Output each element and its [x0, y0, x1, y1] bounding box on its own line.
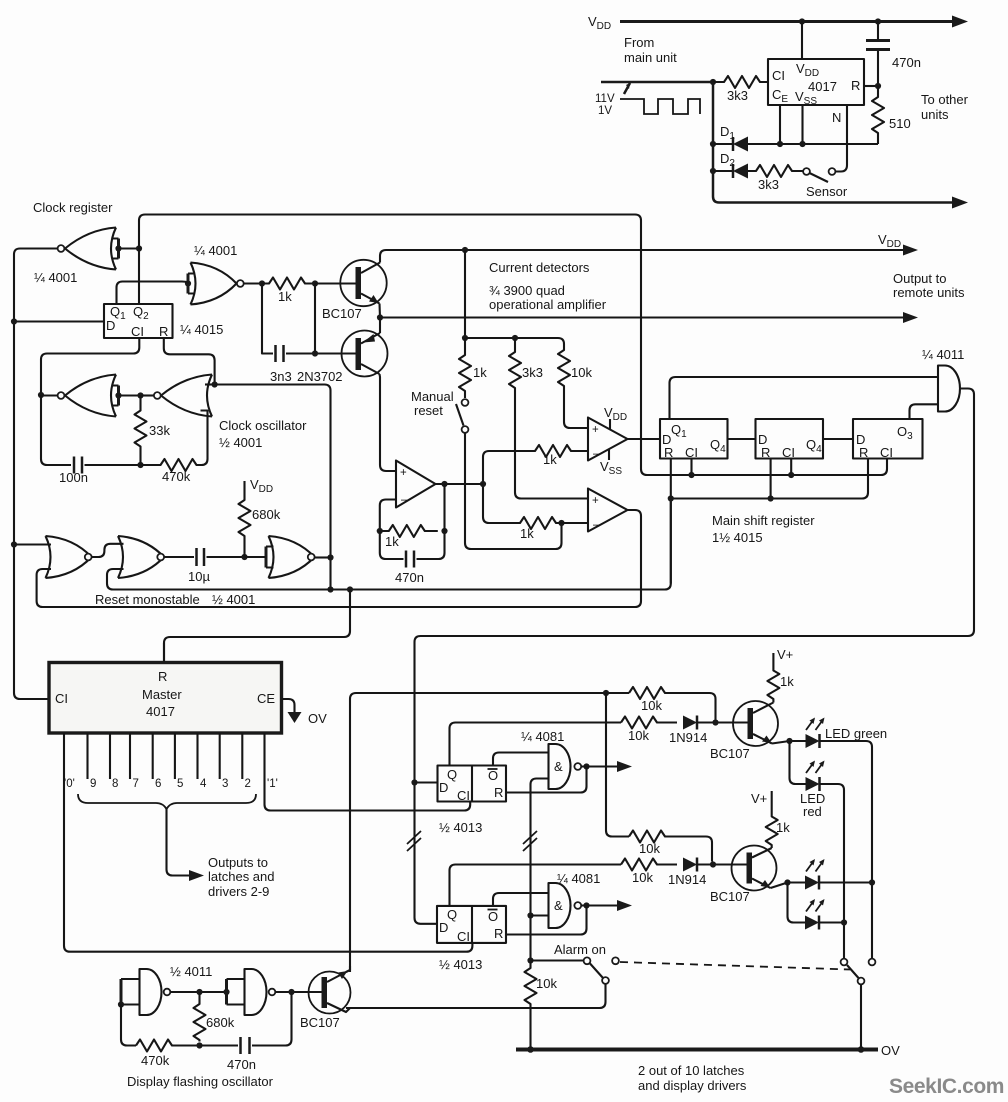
svg-text:SeekIC.com: SeekIC.com: [889, 1075, 1004, 1098]
wire VDD drop to resistor bus: [462, 247, 468, 253]
node input tie osc A: [121, 979, 140, 1005]
svg-text:1k: 1k: [776, 820, 790, 835]
switch manual reset: [462, 399, 469, 406]
svg-text:&: &: [554, 898, 563, 913]
svg-text:Output to: Output to: [893, 271, 946, 286]
svg-text:R: R: [494, 926, 503, 941]
wire output pins 9-2: [88, 733, 243, 779]
resistor 1k (U1b input): [567, 522, 588, 524]
node break marks: [407, 831, 421, 851]
wire C output to reset vertical: [315, 556, 331, 558]
wire gate output to far-left vertical down to Master CI: [14, 249, 58, 700]
svg-text:LED green: LED green: [825, 726, 887, 741]
svg-text:main unit: main unit: [624, 50, 677, 65]
svg-text:3k3: 3k3: [522, 365, 543, 380]
svg-text:10k: 10k: [641, 698, 662, 713]
svg-text:R: R: [859, 445, 868, 460]
wire VDD rail: [620, 20, 956, 23]
svg-text:¾ 3900 quad: ¾ 3900 quad: [489, 283, 565, 298]
svg-text:Outputs to: Outputs to: [208, 855, 268, 870]
svg-text:CI: CI: [880, 445, 893, 460]
wire R pin up: [163, 643, 165, 663]
svg-text:Current detectors: Current detectors: [489, 260, 590, 275]
svg-text:'1': '1': [267, 778, 278, 790]
wire top clock rail to CI bus of shift register: [139, 215, 887, 476]
wire AND lower input from common line: [531, 779, 549, 963]
IC 4017 (remote unit): [768, 59, 864, 105]
svg-text:¼ 4011: ¼ 4011: [922, 347, 964, 362]
wire upper input from left vertical: [11, 541, 17, 547]
wire BC107 emitter to output rail: [378, 304, 381, 318]
svg-text:Q: Q: [447, 907, 457, 922]
resistor 470k (osc): [141, 411, 208, 472]
wire Q2 latch to base line: [450, 865, 622, 906]
svg-text:510: 510: [889, 116, 911, 131]
svg-text:2 out of 10 latches: 2 out of 10 latches: [638, 1063, 745, 1078]
capacitor 10u: [164, 556, 194, 558]
capacitor 470n (flash): [200, 1044, 239, 1046]
resistor 3k3 (detector): [509, 338, 588, 499]
wire O-bar to AND input (lower): [493, 893, 549, 906]
wire 4011 output down to latch D line: [415, 389, 975, 924]
wire AND lower input from common line: [531, 914, 549, 916]
wire Q1 to inverter input: [117, 282, 189, 305]
gate 4011 osc A: [140, 969, 162, 1015]
switch alarm on: [531, 959, 584, 961]
svg-text:CI: CI: [685, 445, 698, 460]
resistor 1k to V+ (lower): [766, 791, 778, 848]
svg-text:red: red: [803, 804, 822, 819]
switch LED select: [841, 959, 848, 966]
wire alarm lever down to flash line: [346, 984, 606, 1008]
resistor 10k (upper pullup): [629, 687, 716, 720]
resistor 1k (manual reset): [459, 338, 471, 398]
svg-text:R: R: [159, 324, 168, 339]
svg-text:V+: V+: [777, 647, 793, 662]
gate 1/4 4001 clock register (NOR pointing left): [65, 228, 116, 270]
wire input to Q2/top rail: [119, 247, 140, 249]
resistor 1k (U1c feedback): [380, 500, 396, 532]
IC 4013 lower: [437, 906, 506, 943]
svg-text:Sensor: Sensor: [806, 184, 848, 199]
svg-text:Clock oscillator: Clock oscillator: [219, 418, 307, 433]
gate reset mono C (NOR right): [269, 536, 315, 578]
svg-text:2N3702: 2N3702: [297, 369, 343, 384]
svg-text:1k: 1k: [543, 452, 557, 467]
transistor Q3 BC107 (upper driver): [733, 701, 778, 746]
svg-text:3k3: 3k3: [727, 88, 748, 103]
op-amp U1b (lower detector): [588, 489, 628, 532]
node junction VDD-470n: [875, 18, 881, 24]
LED red (lower): [788, 883, 806, 923]
svg-text:Alarm on: Alarm on: [554, 942, 606, 957]
wire output pin 1 to upper latch CI: [265, 733, 471, 811]
svg-text:½ 4013: ½ 4013: [439, 820, 482, 835]
svg-text:10k: 10k: [639, 841, 660, 856]
svg-text:Q: Q: [447, 767, 457, 782]
svg-text:remote units: remote units: [893, 285, 965, 300]
svg-text:R: R: [761, 445, 770, 460]
svg-text:1V: 1V: [598, 105, 612, 117]
svg-text:1k: 1k: [520, 526, 534, 541]
svg-text:CI: CI: [457, 788, 470, 803]
svg-text:½ 4013: ½ 4013: [439, 957, 482, 972]
resistor 510: [872, 86, 884, 144]
wire dashed link to LED switch: [620, 962, 850, 970]
svg-text:¼ 4081: ¼ 4081: [557, 871, 600, 886]
svg-text:D: D: [106, 318, 115, 333]
transistor Q1 BC107 (NPN): [340, 260, 386, 306]
svg-text:R: R: [851, 78, 860, 93]
gate clock osc A (NOR pointing left): [65, 375, 116, 417]
svg-text:CE: CE: [257, 691, 275, 706]
svg-text:10k: 10k: [571, 365, 592, 380]
wire left vertical + bottom rail to other units: [713, 82, 956, 203]
wire R to AND output (lower latch feedback): [506, 906, 587, 935]
svg-text:–: –: [593, 519, 600, 531]
op-amp U1a (main detector): [588, 418, 628, 461]
wire osc A output to 100n node: [41, 394, 58, 396]
wire U1c output node: [436, 483, 484, 485]
svg-text:O: O: [488, 768, 498, 783]
svg-text:CI: CI: [772, 68, 785, 83]
svg-text:reset: reset: [414, 403, 443, 418]
svg-text:R: R: [158, 669, 167, 684]
gate 1/4 4001 inverter (NOR pointing right): [191, 263, 237, 305]
wire Q1 latch to base line: [450, 723, 622, 766]
wire input line from main unit: [601, 81, 713, 84]
svg-text:O: O: [488, 909, 498, 924]
svg-text:2: 2: [245, 778, 251, 790]
svg-text:3: 3: [222, 778, 228, 790]
svg-text:3k3: 3k3: [758, 177, 779, 192]
IC 1/4 4015 box: [104, 304, 173, 338]
svg-text:4: 4: [200, 778, 207, 790]
svg-text:1k: 1k: [780, 674, 794, 689]
wire Q1 to 4011 input: [670, 377, 939, 419]
svg-text:CI: CI: [55, 691, 68, 706]
resistor 680k (flash): [194, 992, 206, 1042]
gate 4011 osc B: [245, 969, 267, 1015]
svg-text:operational amplifier: operational amplifier: [489, 297, 607, 312]
wire VDD pin: [801, 22, 803, 60]
resistor 1k (U1a feedback): [483, 445, 588, 484]
capacitor 470n (top right): [877, 22, 879, 40]
svg-text:+: +: [592, 495, 599, 507]
svg-text:From: From: [624, 35, 654, 50]
svg-text:D: D: [439, 780, 448, 795]
wire emitter to LED node: [772, 741, 800, 744]
svg-text:&: &: [554, 759, 563, 774]
IC 4015 stage 2: [756, 419, 824, 459]
wire CI risers: [692, 459, 792, 476]
wire O-bar to AND input: [493, 753, 549, 766]
wire lower input from feedback line: [37, 510, 641, 607]
svg-text:Master: Master: [142, 687, 182, 702]
resistor 1k (BC107 base): [262, 278, 315, 290]
resistor 10k (alarm): [525, 962, 537, 1048]
svg-text:10k: 10k: [632, 870, 653, 885]
svg-text:7: 7: [133, 778, 139, 790]
svg-text:5: 5: [177, 778, 183, 790]
capacitor 3n3: [262, 284, 273, 354]
IC 4015 stage 3: [853, 419, 923, 459]
node waveform symbol: [620, 99, 700, 114]
svg-text:–: –: [593, 448, 600, 460]
gate clock osc B (NOR pointing left): [161, 375, 212, 417]
resistor 3k3 (CI input): [710, 79, 716, 85]
svg-text:¼ 4001: ¼ 4001: [34, 270, 77, 285]
svg-text:CI: CI: [782, 445, 795, 460]
wire reset line to Master R: [164, 590, 350, 663]
diode 1N914 (lower): [683, 858, 697, 872]
resistor 10k (detector): [558, 344, 588, 428]
capacitor 100n: [74, 457, 82, 474]
svg-text:'0': '0': [64, 778, 75, 790]
wire VSS pin down: [801, 105, 803, 144]
svg-text:4017: 4017: [808, 79, 837, 94]
wire 2N3702 collector down to op-amp +: [380, 374, 397, 471]
svg-text:6: 6: [155, 778, 161, 790]
svg-text:OV: OV: [881, 1043, 900, 1058]
wire D pin to left vertical: [14, 320, 104, 322]
resistor 470k (flash): [136, 1040, 200, 1052]
svg-text:½ 4001: ½ 4001: [212, 592, 255, 607]
wire lower pullup feed: [606, 693, 629, 837]
wire D input from 4011 line: [415, 781, 438, 783]
node input tie osc A: [117, 386, 120, 406]
svg-text:CI: CI: [457, 929, 470, 944]
gate reset mono B (NOR right): [118, 536, 164, 578]
transistor Q2 2N3702 (PNP): [342, 331, 388, 377]
IC Master 4017: [49, 663, 282, 734]
svg-text:680k: 680k: [206, 1015, 235, 1030]
switch sensor: [803, 168, 810, 175]
svg-text:drivers 2-9: drivers 2-9: [208, 884, 269, 899]
svg-text:To other: To other: [921, 92, 969, 107]
svg-text:BC107: BC107: [710, 746, 750, 761]
wire CE to 0V: [282, 699, 295, 712]
svg-text:1k: 1k: [385, 534, 399, 549]
IC 4015 stage 1: [660, 419, 728, 459]
wire osc A output: [170, 991, 225, 993]
wire 0V rail: [516, 1048, 878, 1052]
node edge mark: [624, 83, 630, 94]
svg-text:1k: 1k: [473, 365, 487, 380]
svg-text:¼ 4001: ¼ 4001: [194, 243, 237, 258]
wire brace arrow to drivers: [167, 809, 193, 876]
svg-text:10µ: 10µ: [188, 569, 210, 584]
wire R pin down to reset node: [164, 338, 215, 385]
gate 1/4 4081 (upper): [549, 744, 571, 789]
svg-text:½ 4001: ½ 4001: [219, 435, 262, 450]
LED green (lower): [805, 876, 819, 890]
svg-text:8: 8: [112, 778, 118, 790]
wire R bus: [671, 459, 868, 584]
transistor Q5 BC107 (flash driver): [309, 972, 351, 1014]
svg-text:Clock register: Clock register: [33, 200, 113, 215]
node input tie inverter: [187, 274, 190, 294]
svg-text:470n: 470n: [892, 55, 921, 70]
wire O3 to 4011 input: [910, 404, 939, 419]
svg-text:Reset monostable: Reset monostable: [95, 592, 200, 607]
resistor 10k (lower): [621, 859, 677, 871]
gate 1/4 4011: [938, 366, 960, 412]
svg-text:33k: 33k: [149, 423, 170, 438]
wire osc B upper input from reset node: [205, 383, 215, 385]
IC 4013 upper: [438, 766, 507, 802]
wire B lower input to reset bus: [107, 499, 671, 590]
svg-text:470n: 470n: [395, 570, 424, 585]
resistor 680k + VDD lead: [239, 481, 251, 557]
LED green (upper): [806, 734, 820, 748]
svg-text:¼ 4081: ¼ 4081: [521, 729, 564, 744]
svg-text:11V: 11V: [595, 93, 615, 105]
gate reset mono A (NOR right): [46, 536, 92, 578]
svg-text:Display flashing oscillator: Display flashing oscillator: [127, 1074, 274, 1089]
wire feedback down to 470k: [121, 1005, 136, 1046]
resistor 1k to V+ (upper): [767, 653, 779, 703]
svg-text:D: D: [439, 920, 448, 935]
wire Q4-D links: [728, 438, 854, 440]
svg-text:470k: 470k: [162, 469, 191, 484]
transistor Q4 BC107 (lower driver): [732, 846, 777, 891]
wire CI pin down to oscillator output node: [41, 338, 139, 395]
capacitor 470n (U1c feedback): [380, 531, 404, 559]
wire BC107 collector to VDD arrow rail: [380, 250, 907, 263]
node input tie clock register gate: [117, 239, 120, 259]
svg-text:N: N: [832, 110, 841, 125]
svg-text:OV: OV: [308, 711, 327, 726]
svg-text:¼ 4015: ¼ 4015: [180, 322, 223, 337]
svg-text:9: 9: [90, 778, 96, 790]
svg-text:V+: V+: [751, 791, 767, 806]
node brace outputs 9-2: [78, 794, 256, 809]
wire CE pin down: [779, 105, 781, 144]
svg-text:CI: CI: [131, 324, 144, 339]
svg-text:½ 4011: ½ 4011: [170, 964, 212, 979]
svg-text:+: +: [592, 424, 599, 436]
resistor 33k: [135, 396, 147, 466]
wire U1a output to shift register D: [628, 438, 661, 440]
wire emitter to LED node (lower): [771, 883, 801, 889]
LED red (upper): [790, 741, 806, 784]
svg-text:680k: 680k: [252, 507, 281, 522]
op-amp U1c (input amp): [396, 461, 436, 508]
wire reset node to monostable output (vertical x=331): [215, 385, 331, 590]
wire manual reset to detector - node: [465, 433, 562, 549]
wire AND output arrow: [583, 763, 589, 769]
svg-text:4017: 4017: [146, 704, 175, 719]
svg-text:100n: 100n: [59, 470, 88, 485]
node junction VDD-4017: [799, 18, 805, 24]
svg-text:R: R: [494, 785, 503, 800]
wire inverter output: [244, 282, 262, 284]
svg-text:10k: 10k: [536, 976, 557, 991]
wire Q2 pin: [138, 249, 140, 305]
svg-text:BC107: BC107: [300, 1015, 340, 1030]
wire osc B output to BC107 base: [275, 991, 322, 993]
svg-text:–: –: [401, 494, 408, 506]
wire output pin 0 to lower latch CI: [64, 733, 472, 952]
svg-text:3n3: 3n3: [270, 369, 292, 384]
gate 1/4 4081 (lower): [549, 883, 571, 928]
svg-text:BC107: BC107: [710, 889, 750, 904]
svg-text:470n: 470n: [227, 1057, 256, 1072]
svg-text:R: R: [664, 445, 673, 460]
svg-text:units: units: [921, 107, 949, 122]
svg-text:and display drivers: and display drivers: [638, 1078, 747, 1093]
svg-text:1N914: 1N914: [668, 872, 706, 887]
wire A out to B upper input: [92, 544, 124, 557]
resistor 10k (Q to diode): [621, 717, 677, 729]
svg-text:Main shift register: Main shift register: [712, 513, 815, 528]
wire driver feed line y=693: [350, 693, 356, 972]
svg-text:BC107: BC107: [322, 306, 362, 321]
svg-text:1k: 1k: [278, 289, 292, 304]
svg-text:10k: 10k: [628, 728, 649, 743]
node input tie mono C: [265, 547, 268, 568]
svg-text:Manual: Manual: [411, 389, 454, 404]
svg-text:+: +: [400, 467, 407, 479]
node input tie osc B: [225, 979, 228, 1005]
wire R pin: [864, 85, 878, 87]
svg-text:1½ 4015: 1½ 4015: [712, 530, 763, 545]
svg-text:1N914: 1N914: [669, 730, 707, 745]
svg-text:470k: 470k: [141, 1053, 170, 1068]
resistor 10k (lower pullup): [629, 831, 712, 862]
resistor 3k3 (sensor): [748, 165, 803, 177]
svg-text:latches and: latches and: [208, 869, 275, 884]
diode 1N914 (upper): [683, 716, 697, 730]
wire R to AND output (latch feedback): [506, 767, 587, 793]
